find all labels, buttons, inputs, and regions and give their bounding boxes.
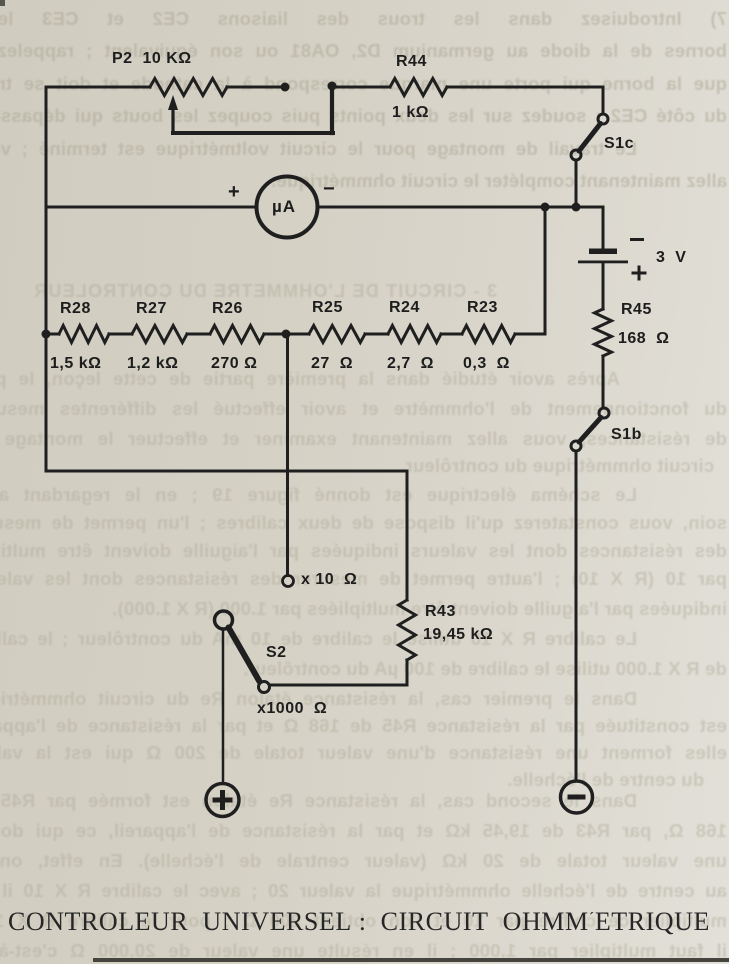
resistor R25 zigzag <box>309 326 365 343</box>
switch S1b top contact <box>599 408 609 418</box>
terminal x10 contact circle <box>283 576 294 587</box>
wire down to S1c <box>602 87 605 114</box>
wire wiper horizontal run <box>173 131 333 135</box>
wire meter rail right <box>318 206 603 209</box>
wire wiper vertical riser <box>330 86 334 133</box>
switch S1c top contact <box>598 114 608 124</box>
label meter uA <box>272 197 296 217</box>
resistor R44 zigzag <box>390 79 447 96</box>
wire R45 to S1b <box>602 356 605 408</box>
label R28 <box>60 300 91 318</box>
wire R28-R27 <box>109 333 132 336</box>
label meter plus <box>228 181 240 204</box>
label S2 <box>266 644 287 662</box>
wire ladder junction down to x10 contact <box>286 334 289 576</box>
label R28 value <box>50 355 101 373</box>
label S1c <box>604 135 634 153</box>
node junction dot B <box>572 203 581 212</box>
scan corner mark <box>0 0 5 6</box>
wire battery to R45 <box>602 263 605 309</box>
battery plus sign vertical <box>638 266 641 281</box>
wire R43 to S2 run <box>406 660 409 685</box>
wire R23 to riser <box>515 333 545 336</box>
label R45 <box>621 301 652 319</box>
terminal minus circle <box>561 781 593 813</box>
ghost bleed-through text from reverse page side <box>0 8 727 32</box>
wire down to R43 <box>406 471 409 600</box>
wire to R28 <box>46 333 59 336</box>
switch S1c blade <box>579 124 601 152</box>
wire R26 to junction <box>264 333 309 336</box>
label meter minus <box>323 178 335 201</box>
wire R27-R26 <box>187 333 210 336</box>
label R45 value <box>618 330 669 348</box>
battery B1 positive plate <box>578 261 628 264</box>
wire S2 bottom run <box>270 684 407 687</box>
resistor R23 zigzag <box>462 326 515 343</box>
switch S2 pivot <box>215 611 233 629</box>
switch S1b bottom contact <box>571 441 581 451</box>
label R44 <box>396 53 427 71</box>
terminal plus sign horizontal <box>213 798 233 803</box>
label R27 value <box>127 355 178 373</box>
label R43 value <box>423 626 493 644</box>
label R26 value <box>211 355 257 373</box>
wire riser to meter rail <box>544 207 547 334</box>
wire meter rail left <box>46 206 256 209</box>
battery B1 negative plate <box>589 249 617 255</box>
wire R44 to corner <box>447 86 603 89</box>
label R25 value <box>311 355 353 373</box>
wire S2 pivot to plus terminal <box>222 630 225 784</box>
label x1000 range <box>257 700 327 718</box>
resistor R26 zigzag <box>210 326 264 343</box>
node ladder mid junction dot <box>282 330 291 339</box>
scan bottom edge <box>93 958 729 962</box>
label R44 value <box>392 104 429 122</box>
meter U1 microammeter circle <box>257 177 318 238</box>
resistor R24 zigzag <box>388 326 441 343</box>
battery plus sign horizontal <box>632 272 647 275</box>
label R27 <box>136 300 167 318</box>
resistor R45 zigzag <box>595 309 612 356</box>
wire left rail vertical <box>45 87 48 471</box>
node left rail / ladder junction <box>42 330 51 339</box>
label R43 <box>425 603 456 621</box>
wire to R44 <box>332 86 390 89</box>
wire R25-R24 <box>365 333 388 336</box>
terminal minus sign <box>568 795 586 800</box>
switch S1b blade <box>579 418 601 443</box>
potentiometer P2 zigzag <box>150 79 227 96</box>
switch S1c bottom contact <box>571 150 581 160</box>
label S1b <box>611 426 642 444</box>
wire P2 right terminal <box>227 86 285 89</box>
label battery 3V <box>656 249 686 267</box>
resistor R43 zigzag <box>399 600 416 660</box>
wire R24-R23 <box>441 333 462 336</box>
label x10 range <box>301 571 357 589</box>
label R24 value <box>387 355 434 373</box>
label P2 value <box>112 50 192 68</box>
wire P2 wiper stem <box>171 107 174 133</box>
label R25 <box>312 299 343 317</box>
resistor R28 zigzag <box>59 326 109 343</box>
switch S2 blade <box>229 628 260 682</box>
terminal plus circle <box>206 784 239 817</box>
node P2 right terminal dot <box>281 83 290 92</box>
node junction dot A <box>541 203 550 212</box>
node wiper junction dot <box>328 82 337 91</box>
wire bottom rail <box>46 470 407 473</box>
wire down to battery <box>602 207 605 247</box>
wire S1b to minus terminal <box>575 451 578 781</box>
label R23 <box>467 299 498 317</box>
page title <box>8 907 729 937</box>
label R24 <box>389 299 420 317</box>
wire left rail to P2 <box>46 86 150 89</box>
switch S2 x1000 contact <box>259 682 270 693</box>
wire S1c to meter rail <box>575 160 578 204</box>
battery minus sign <box>630 238 644 241</box>
label R23 value <box>463 355 510 373</box>
terminal plus sign vertical <box>220 790 225 810</box>
label R26 <box>212 300 243 318</box>
P2 wiper arrowhead <box>168 95 178 110</box>
resistor R27 zigzag <box>132 326 187 343</box>
